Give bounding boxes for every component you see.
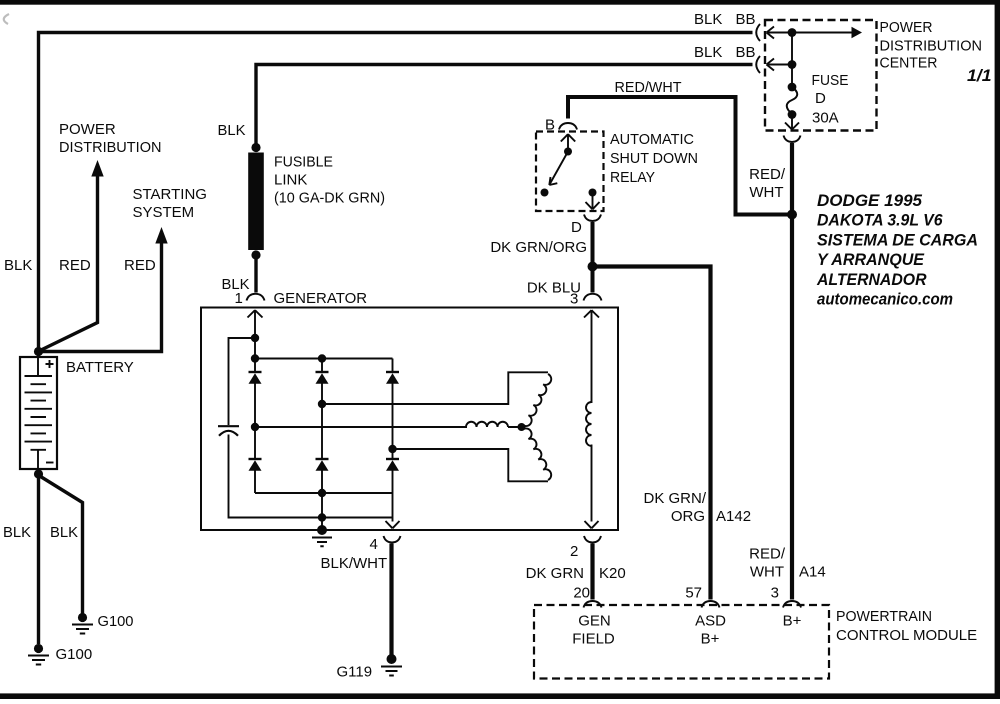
svg-text:CONTROL MODULE: CONTROL MODULE	[836, 627, 977, 644]
bottom bus	[255, 492, 393, 494]
wire BLK generator-to-PDC	[256, 65, 753, 149]
generator internals	[218, 310, 599, 546]
ground G119	[381, 654, 402, 676]
battery minus sign	[46, 462, 54, 464]
wire RED/WHT to ASD relay	[568, 97, 790, 215]
node DK BLU junction	[588, 262, 598, 272]
ground G100 right	[72, 613, 93, 634]
svg-text:BB: BB	[736, 11, 756, 28]
wire field to pin 2	[591, 445, 593, 522]
relay contact node right	[589, 189, 597, 197]
connector relay pin B (cap)	[559, 123, 577, 130]
svg-text:GEN: GEN	[578, 613, 611, 630]
capacitor C1 curved plate	[219, 431, 238, 436]
svg-text:BLK/WHT: BLK/WHT	[321, 555, 388, 572]
PDC arrow right	[792, 32, 852, 34]
scan artifact top-left	[4, 14, 9, 24]
field winding L1	[586, 402, 592, 446]
svg-text:D: D	[571, 219, 582, 236]
wire RED starting system branch	[40, 242, 162, 352]
connector PCM pin 57 (cap)	[702, 601, 720, 608]
node ground bus col2	[318, 513, 326, 521]
svg-text:BLK: BLK	[50, 524, 78, 541]
svg-text:DK GRN: DK GRN	[526, 565, 584, 582]
diode D2 (col2 top)	[316, 371, 329, 373]
diode D1 (col1 top)	[249, 371, 262, 373]
relay switch blade	[549, 152, 568, 186]
svg-text:SISTEMA DE CARGA: SISTEMA DE CARGA	[817, 231, 978, 249]
svg-text:B+: B+	[701, 631, 720, 648]
wire A142 branch to PCM pin 57	[593, 267, 711, 600]
wire BLK/WHT pin4 to G119	[389, 544, 393, 659]
fusible link body	[248, 153, 264, 251]
svg-text:1/1: 1/1	[967, 67, 992, 85]
svg-text:DK GRN/ORG: DK GRN/ORG	[490, 239, 587, 256]
pin 1 arrow up inside generator	[248, 310, 263, 338]
svg-text:A14: A14	[799, 564, 826, 581]
diode D5 (col2 bottom)	[316, 458, 329, 460]
node PDC row1	[788, 28, 797, 37]
svg-text:RED/: RED/	[749, 546, 786, 563]
svg-text:FUSE: FUSE	[812, 72, 849, 89]
wire column2 vertical	[321, 359, 323, 531]
svg-text:DAKOTA 3.9L V6: DAKOTA 3.9L V6	[817, 212, 943, 230]
node top bus col2	[318, 354, 326, 362]
node fusible link top	[251, 143, 260, 152]
svg-text:automecanico.com: automecanico.com	[817, 291, 953, 309]
PDC internal wire row1 with left chevron	[767, 27, 793, 39]
svg-text:G100: G100	[98, 613, 134, 630]
connector pin 1 (cap)	[247, 294, 265, 301]
PDC exit arrow (chevron down)	[785, 115, 799, 130]
wire battery negative to G100 left	[37, 474, 40, 644]
pin 4 arrow down inside generator	[386, 521, 400, 528]
connector relay pin D (cup)	[584, 215, 601, 222]
pin 2 arrow down inside generator	[585, 521, 599, 528]
wire capacitor to ground bus	[229, 435, 393, 518]
svg-text:RED: RED	[59, 257, 91, 274]
PCM dashed box	[534, 605, 829, 679]
diode D3 (col3 top)	[386, 371, 399, 373]
relay pivot node	[564, 148, 572, 156]
svg-text:DISTRIBUTION: DISTRIBUTION	[59, 139, 162, 156]
stator phase wire middle	[255, 426, 467, 428]
border top bar	[0, 0, 1000, 5]
wire RED power distribution branch	[40, 174, 98, 351]
connector generator pin 2 (cup)	[584, 536, 601, 543]
svg-text:B+: B+	[783, 613, 802, 630]
stator coil bottom	[524, 428, 552, 480]
battery case	[20, 357, 57, 469]
svg-text:RED: RED	[124, 257, 156, 274]
svg-text:BLK: BLK	[694, 44, 722, 61]
wire capacitor branch	[229, 338, 256, 425]
fuse D 30A	[788, 83, 797, 92]
ground G100 left	[28, 644, 49, 665]
svg-text:3: 3	[570, 291, 578, 308]
svg-text:RED/WHT: RED/WHT	[615, 79, 682, 96]
relay output arrow down	[586, 193, 600, 210]
svg-text:STARTING: STARTING	[133, 186, 207, 203]
connector BB row1	[756, 24, 760, 41]
svg-text:DODGE 1995: DODGE 1995	[817, 192, 923, 210]
connector PCM pin 20 (cap)	[584, 601, 602, 608]
svg-text:ORG: ORG	[671, 508, 705, 525]
wire BLK battery-to-PDC	[39, 33, 753, 353]
svg-text:GENERATOR: GENERATOR	[274, 290, 368, 307]
svg-text:LINK: LINK	[274, 172, 307, 189]
svg-text:FUSIBLE: FUSIBLE	[274, 154, 333, 171]
svg-text:BLK: BLK	[218, 122, 246, 139]
node phase tap col1	[251, 423, 259, 431]
border bottom bar	[0, 693, 1000, 699]
node PDC row2	[788, 60, 797, 69]
svg-text:DK GRN/: DK GRN/	[643, 490, 706, 507]
relay dashed box	[536, 132, 604, 212]
svg-text:WHT: WHT	[749, 184, 783, 201]
relay pin B arrow up	[561, 134, 575, 152]
node rectifier feed	[251, 334, 259, 342]
svg-text:POWERTRAIN: POWERTRAIN	[836, 608, 932, 625]
svg-text:ASD: ASD	[695, 613, 726, 630]
connector generator pin 4 (cup)	[384, 536, 401, 543]
svg-text:2: 2	[570, 543, 578, 560]
ground symbol generator	[312, 538, 332, 547]
wire DK GRN/ORG relay to generator pin 3	[591, 222, 595, 293]
top bus	[255, 358, 393, 360]
node stator star point	[518, 423, 526, 431]
node bottom bus col2	[318, 489, 326, 497]
wire column1 vertical	[254, 338, 256, 493]
diode D4 (col1 bottom)	[249, 458, 262, 460]
svg-text:DISTRIBUTION: DISTRIBUTION	[880, 38, 983, 55]
stator phase wire bottom	[393, 449, 549, 481]
PDC internal wire row2 with left chevron	[767, 59, 793, 71]
border right bar	[995, 0, 1000, 699]
svg-text:A142: A142	[716, 508, 751, 525]
svg-text:K20: K20	[599, 565, 626, 582]
svg-text:AUTOMATIC: AUTOMATIC	[610, 131, 694, 148]
svg-text:POWER: POWER	[59, 121, 116, 138]
connector fuse output	[784, 136, 801, 143]
stator coil middle	[466, 422, 519, 427]
node phase tap col2	[318, 400, 326, 408]
svg-text:3: 3	[771, 585, 779, 602]
diode D6 (col3 bottom)	[386, 458, 399, 460]
capacitor C1 plate	[218, 425, 239, 427]
svg-text:20: 20	[573, 585, 590, 602]
wire fusible link to generator pin 1	[254, 255, 257, 293]
connector BB row2	[756, 56, 760, 73]
svg-text:FIELD: FIELD	[572, 631, 615, 648]
connector PCM pin 3 (cap)	[783, 601, 801, 608]
node top bus col1	[251, 354, 259, 362]
svg-text:1: 1	[235, 290, 243, 307]
svg-text:CENTER: CENTER	[880, 55, 938, 72]
svg-text:D: D	[815, 90, 826, 107]
node battery positive	[34, 347, 43, 356]
connector generator pin 3 (cap)	[584, 294, 602, 301]
relay contact node left	[541, 189, 549, 197]
svg-text:BLK: BLK	[4, 257, 32, 274]
svg-text:BATTERY: BATTERY	[66, 359, 134, 376]
wire RED/WHT fuse to PCM pin 3 (B+)	[790, 143, 794, 600]
wire DK GRN pin2 to PCM pin 20	[590, 544, 594, 600]
svg-text:57: 57	[685, 585, 702, 602]
stator phase wire top	[322, 372, 548, 404]
svg-text:BLK: BLK	[3, 524, 31, 541]
svg-text:ALTERNADOR: ALTERNADOR	[816, 271, 927, 289]
node fusible link bottom	[251, 250, 260, 259]
svg-text:G100: G100	[56, 646, 93, 663]
wire column3 vertical	[392, 359, 394, 522]
generator box	[201, 308, 618, 531]
PDC dashed box	[765, 20, 877, 131]
node battery negative	[34, 469, 43, 478]
svg-text:BLK: BLK	[694, 11, 722, 28]
svg-text:RELAY: RELAY	[610, 169, 655, 186]
battery internal plates	[25, 357, 53, 469]
arrow to power distribution (filled)	[91, 160, 103, 177]
svg-text:Y ARRANQUE: Y ARRANQUE	[817, 251, 925, 269]
svg-text:RED/: RED/	[749, 166, 786, 183]
PDC bus vertical	[791, 33, 793, 88]
node generator ground	[317, 525, 327, 535]
node phase tap col3	[388, 445, 396, 453]
node RED/WHT junction	[787, 210, 797, 220]
wire battery negative to G100 right	[41, 477, 83, 614]
battery plus sign	[46, 360, 54, 368]
svg-text:POWER: POWER	[880, 19, 933, 36]
svg-text:SHUT DOWN: SHUT DOWN	[610, 150, 698, 167]
svg-text:30A: 30A	[812, 110, 839, 127]
arrow to starting system (filled)	[155, 227, 167, 244]
svg-text:BB: BB	[736, 44, 756, 61]
svg-text:4: 4	[370, 536, 378, 553]
svg-text:SYSTEM: SYSTEM	[133, 204, 195, 221]
svg-text:(10 GA-DK GRN): (10 GA-DK GRN)	[274, 190, 385, 207]
pin 3 arrow up inside generator	[584, 310, 599, 403]
svg-text:G119: G119	[337, 664, 373, 681]
stator coil top	[524, 374, 552, 426]
svg-text:WHT: WHT	[750, 564, 784, 581]
